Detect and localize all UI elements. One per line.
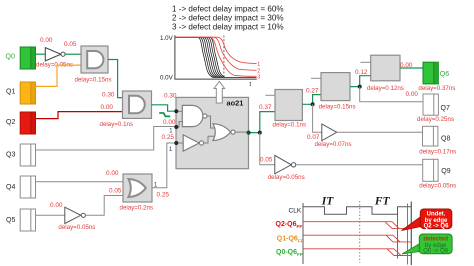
svg-text:0.07: 0.07 bbox=[307, 134, 320, 141]
flip-flop Q5 bbox=[6, 209, 36, 231]
flip-flop Q7 bbox=[417, 94, 454, 123]
inverter U3 bbox=[268, 155, 305, 181]
svg-text:detected: detected bbox=[423, 237, 448, 243]
svg-text:1.0V: 1.0V bbox=[160, 35, 174, 42]
callout detected bbox=[402, 234, 452, 255]
capture clock edge line bbox=[397, 207, 399, 259]
svg-text:Q8: Q8 bbox=[441, 135, 450, 142]
ao21 internal NAND gate bbox=[182, 105, 207, 126]
wire buffer U4 to Q8 bbox=[337, 131, 423, 133]
svg-text:Q4: Q4 bbox=[6, 184, 15, 191]
flip-flop Q9 bbox=[419, 159, 456, 189]
svg-text:Q7: Q7 bbox=[441, 105, 450, 112]
svg-text:CLK: CLK bbox=[289, 207, 302, 214]
svg-text:0.30: 0.30 bbox=[164, 92, 177, 99]
wire inverter U3 to Q9 bbox=[296, 164, 423, 166]
ao21 output node on box edge bbox=[247, 131, 251, 135]
gate G5 box bbox=[319, 73, 356, 111]
svg-text:0.37: 0.37 bbox=[259, 104, 272, 111]
svg-text:0.27: 0.27 bbox=[306, 87, 319, 94]
gate G6 box bbox=[367, 55, 404, 92]
timing left axis bbox=[302, 203, 304, 264]
wire G2 to ao21 input A (defect site) bbox=[152, 105, 177, 111]
OR gate G3 box bbox=[120, 174, 154, 212]
svg-text:2 -> defect delay impact = 30%: 2 -> defect delay impact = 30% bbox=[172, 14, 284, 23]
svg-text:0.30: 0.30 bbox=[102, 91, 115, 98]
svg-text:1 -> defect delay impact = 60%: 1 -> defect delay impact = 60% bbox=[172, 5, 284, 14]
svg-text:1: 1 bbox=[154, 181, 158, 188]
wire Q2 to gate G2 bbox=[36, 112, 123, 119]
wire G1 to gate G2 bbox=[108, 60, 123, 98]
svg-text:delay=0.15ns: delay=0.15ns bbox=[75, 77, 112, 84]
svg-text:delay=0.2ns: delay=0.2ns bbox=[120, 205, 154, 212]
wire Q5 to inverter U2 bbox=[36, 214, 65, 216]
svg-text:1: 1 bbox=[257, 62, 260, 68]
svg-text:1: 1 bbox=[169, 146, 173, 153]
wire G5 to gate G6 bbox=[350, 76, 371, 87]
svg-text:Q1: Q1 bbox=[6, 88, 15, 95]
svg-text:FT: FT bbox=[374, 196, 391, 208]
inverter U2 bbox=[58, 207, 95, 231]
wire fanout to inverter U3 bbox=[260, 133, 275, 165]
CLK waveform bbox=[303, 207, 411, 215]
svg-text:3 -> defect delay impact = 10%: 3 -> defect delay impact = 10% bbox=[172, 22, 284, 31]
svg-text:Q6: Q6 bbox=[440, 71, 449, 78]
buffer U4 bbox=[315, 124, 352, 148]
svg-text:3: 3 bbox=[257, 75, 260, 81]
signal Q1-Q6 waveform bbox=[303, 235, 411, 242]
required-time red line bbox=[407, 204, 409, 265]
svg-text:delay=0.05ns: delay=0.05ns bbox=[419, 183, 456, 190]
flip-flop Q1 bbox=[6, 82, 36, 104]
defective waveform curve 3 (10%) bbox=[175, 37, 256, 76]
inverter U1 bbox=[36, 48, 73, 69]
complex gate ao21 box bbox=[176, 97, 249, 168]
wire fanout to Q7 bbox=[360, 87, 423, 102]
svg-text:delay=0.1ns: delay=0.1ns bbox=[100, 121, 134, 128]
timing diagram bbox=[276, 196, 412, 266]
ao21 internal NOR gate bbox=[213, 124, 235, 141]
svg-text:delay=0.05ns: delay=0.05ns bbox=[58, 224, 95, 231]
gate G4 box bbox=[273, 90, 307, 129]
svg-text:Undet.: Undet. bbox=[427, 212, 446, 218]
wire Q3 to ao21 input B bbox=[36, 127, 177, 151]
svg-text:delay=0.05ns: delay=0.05ns bbox=[268, 174, 305, 181]
svg-text:ao21: ao21 bbox=[227, 99, 244, 108]
plot dashed time line bbox=[223, 36, 225, 80]
svg-text:delay=0.25ns: delay=0.25ns bbox=[417, 116, 454, 123]
observation arrow into plot bbox=[214, 81, 225, 103]
flip-flop Q6 bbox=[418, 62, 455, 92]
wire inverter U1 to gate G1 bbox=[65, 53, 81, 55]
gate G6 stub input bbox=[361, 61, 371, 63]
svg-text:IT: IT bbox=[321, 196, 334, 208]
svg-text:delay=0.12ns: delay=0.12ns bbox=[367, 85, 404, 92]
G5 output fanout node bbox=[358, 85, 362, 89]
svg-text:t: t bbox=[249, 81, 251, 88]
svg-text:0.00: 0.00 bbox=[101, 104, 114, 111]
wire inverter U2 to OR gate G3 bbox=[85, 196, 123, 216]
wire fanout to buffer U4 bbox=[313, 104, 322, 132]
ao21 output wire to gate G4 bbox=[249, 112, 276, 133]
gate G4 stub input bbox=[265, 94, 275, 96]
svg-text:delay=0.37ns: delay=0.37ns bbox=[418, 85, 455, 92]
svg-text:Q0 -> Q6: Q0 -> Q6 bbox=[423, 249, 449, 255]
callout undetected bbox=[402, 209, 452, 231]
fault-free waveform bundle (hatched) bbox=[175, 37, 256, 77]
svg-text:0.00: 0.00 bbox=[106, 170, 119, 177]
signal Q0-Q6 waveform bbox=[303, 249, 411, 256]
svg-text:Q3: Q3 bbox=[6, 151, 15, 158]
ao21 internal wires bbox=[176, 111, 249, 143]
timing right boundary bbox=[410, 202, 412, 266]
signal Q2-Q6 waveform bbox=[303, 222, 411, 229]
svg-text:Q0: Q0 bbox=[6, 53, 15, 60]
G4 output fanout node bbox=[311, 102, 315, 106]
svg-text:Q9: Q9 bbox=[441, 168, 450, 175]
ao21 internal inverter bbox=[183, 135, 203, 151]
flip-flop Q4 bbox=[6, 176, 36, 198]
svg-text:0.00: 0.00 bbox=[163, 119, 176, 126]
svg-text:0.05: 0.05 bbox=[260, 156, 273, 163]
svg-text:0.12: 0.12 bbox=[355, 69, 368, 76]
svg-text:0.25: 0.25 bbox=[157, 191, 170, 198]
svg-text:Q5: Q5 bbox=[6, 217, 15, 224]
svg-text:delay=0.1ns: delay=0.1ns bbox=[273, 121, 307, 128]
flip-flop Q3 bbox=[6, 144, 36, 166]
svg-text:0.25: 0.25 bbox=[162, 134, 175, 141]
defect slow-transition glyph bbox=[159, 113, 170, 116]
svg-text:delay=0.17ns: delay=0.17ns bbox=[419, 148, 456, 155]
waveform plot axes bbox=[160, 35, 257, 88]
svg-text:0.00: 0.00 bbox=[406, 91, 419, 98]
gate G5 stub input bbox=[311, 77, 321, 79]
svg-text:delay=0.15ns: delay=0.15ns bbox=[319, 104, 356, 111]
svg-text:0.05: 0.05 bbox=[64, 41, 77, 48]
wire Q0 to inverter U1 bbox=[36, 53, 46, 55]
svg-text:0.05: 0.05 bbox=[109, 187, 122, 194]
defective waveform curve 2 (30%) bbox=[175, 37, 256, 70]
wire G6 to Q6 bbox=[400, 67, 423, 69]
flip-flop Q8 bbox=[419, 126, 456, 155]
svg-text:0.00: 0.00 bbox=[400, 62, 413, 69]
wire Q4 to OR gate G3 bbox=[36, 181, 124, 183]
svg-text:delay=0.07ns: delay=0.07ns bbox=[315, 141, 352, 148]
svg-text:Q2 -> Q6: Q2 -> Q6 bbox=[424, 224, 450, 230]
ao21 output fanout node bbox=[258, 131, 262, 135]
ao21 input node A bbox=[174, 109, 178, 113]
wire Q1 to gate G1 bbox=[36, 65, 82, 86]
AND gate G1 box bbox=[75, 46, 112, 84]
defective waveform curve 1 (60%) bbox=[175, 37, 256, 63]
ao21 input node B bbox=[174, 125, 178, 129]
wire G4 to gate G5 bbox=[302, 95, 321, 105]
svg-text:0.00: 0.00 bbox=[50, 202, 63, 209]
AND gate G2 box bbox=[100, 91, 152, 128]
svg-text:Q2: Q2 bbox=[6, 119, 15, 126]
ao21 input node C bbox=[174, 141, 178, 145]
svg-text:0.00: 0.00 bbox=[40, 37, 53, 44]
wire G3 to ao21 input C bbox=[152, 143, 176, 188]
flip-flop Q0 bbox=[6, 47, 36, 69]
svg-text:0.0V: 0.0V bbox=[160, 75, 174, 82]
flip-flop Q2 bbox=[6, 112, 36, 134]
IT/FT boundary dotted line bbox=[359, 201, 361, 263]
